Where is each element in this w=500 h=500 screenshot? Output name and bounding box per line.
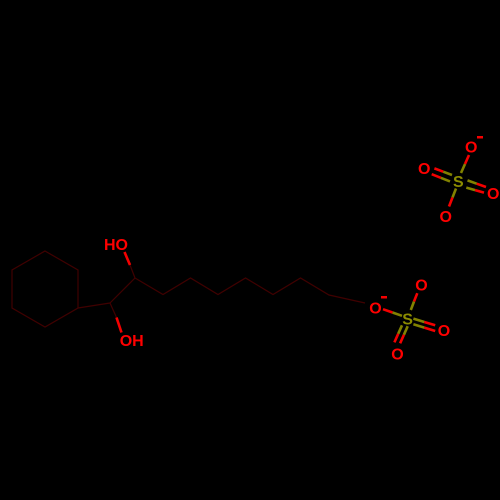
bond S1=O1 left line b [441, 178, 450, 182]
svg-text:O: O [391, 346, 403, 363]
wire C2-O red half [117, 318, 122, 333]
bond S1-O1minus [461, 164, 465, 173]
charge minus on O1 [477, 136, 483, 139]
svg-text:O: O [418, 161, 430, 178]
bond S1=O1 left line a [443, 172, 452, 175]
bond S2-O2 top [411, 302, 414, 311]
svg-text:S: S [453, 174, 464, 191]
wire C2-C1 [110, 278, 135, 303]
svg-text:O: O [369, 300, 381, 317]
bond S1=O1 right line b [466, 188, 475, 191]
svg-text:O: O [415, 277, 427, 294]
svg-text:OH: OH [120, 333, 144, 350]
wire ring to C2 [78, 303, 110, 308]
svg-text:HO: HO [104, 237, 128, 254]
bond S2=O2 right line b [413, 324, 424, 327]
bond S2-O2minus left [393, 313, 403, 316]
svg-text:S: S [402, 312, 413, 329]
bond S2=O2 bottom line b [404, 326, 408, 335]
wire C1-O red half [125, 252, 131, 265]
alkyl chain [135, 278, 365, 303]
bond S2=O2 right line a [413, 319, 424, 322]
cyclohexane ring [12, 251, 78, 327]
bond S1-O1 bottom [453, 189, 457, 198]
svg-text:O: O [440, 209, 452, 226]
wire C1-O dark half [130, 265, 135, 278]
svg-text:O: O [465, 140, 477, 157]
bond S2=O2 bottom line a [398, 325, 402, 334]
svg-text:O: O [487, 186, 499, 203]
charge minus on O2 [381, 296, 387, 299]
svg-text:O: O [438, 323, 450, 340]
bond S1=O1 right line a [468, 180, 477, 183]
wire C2-O dark half [110, 303, 117, 318]
